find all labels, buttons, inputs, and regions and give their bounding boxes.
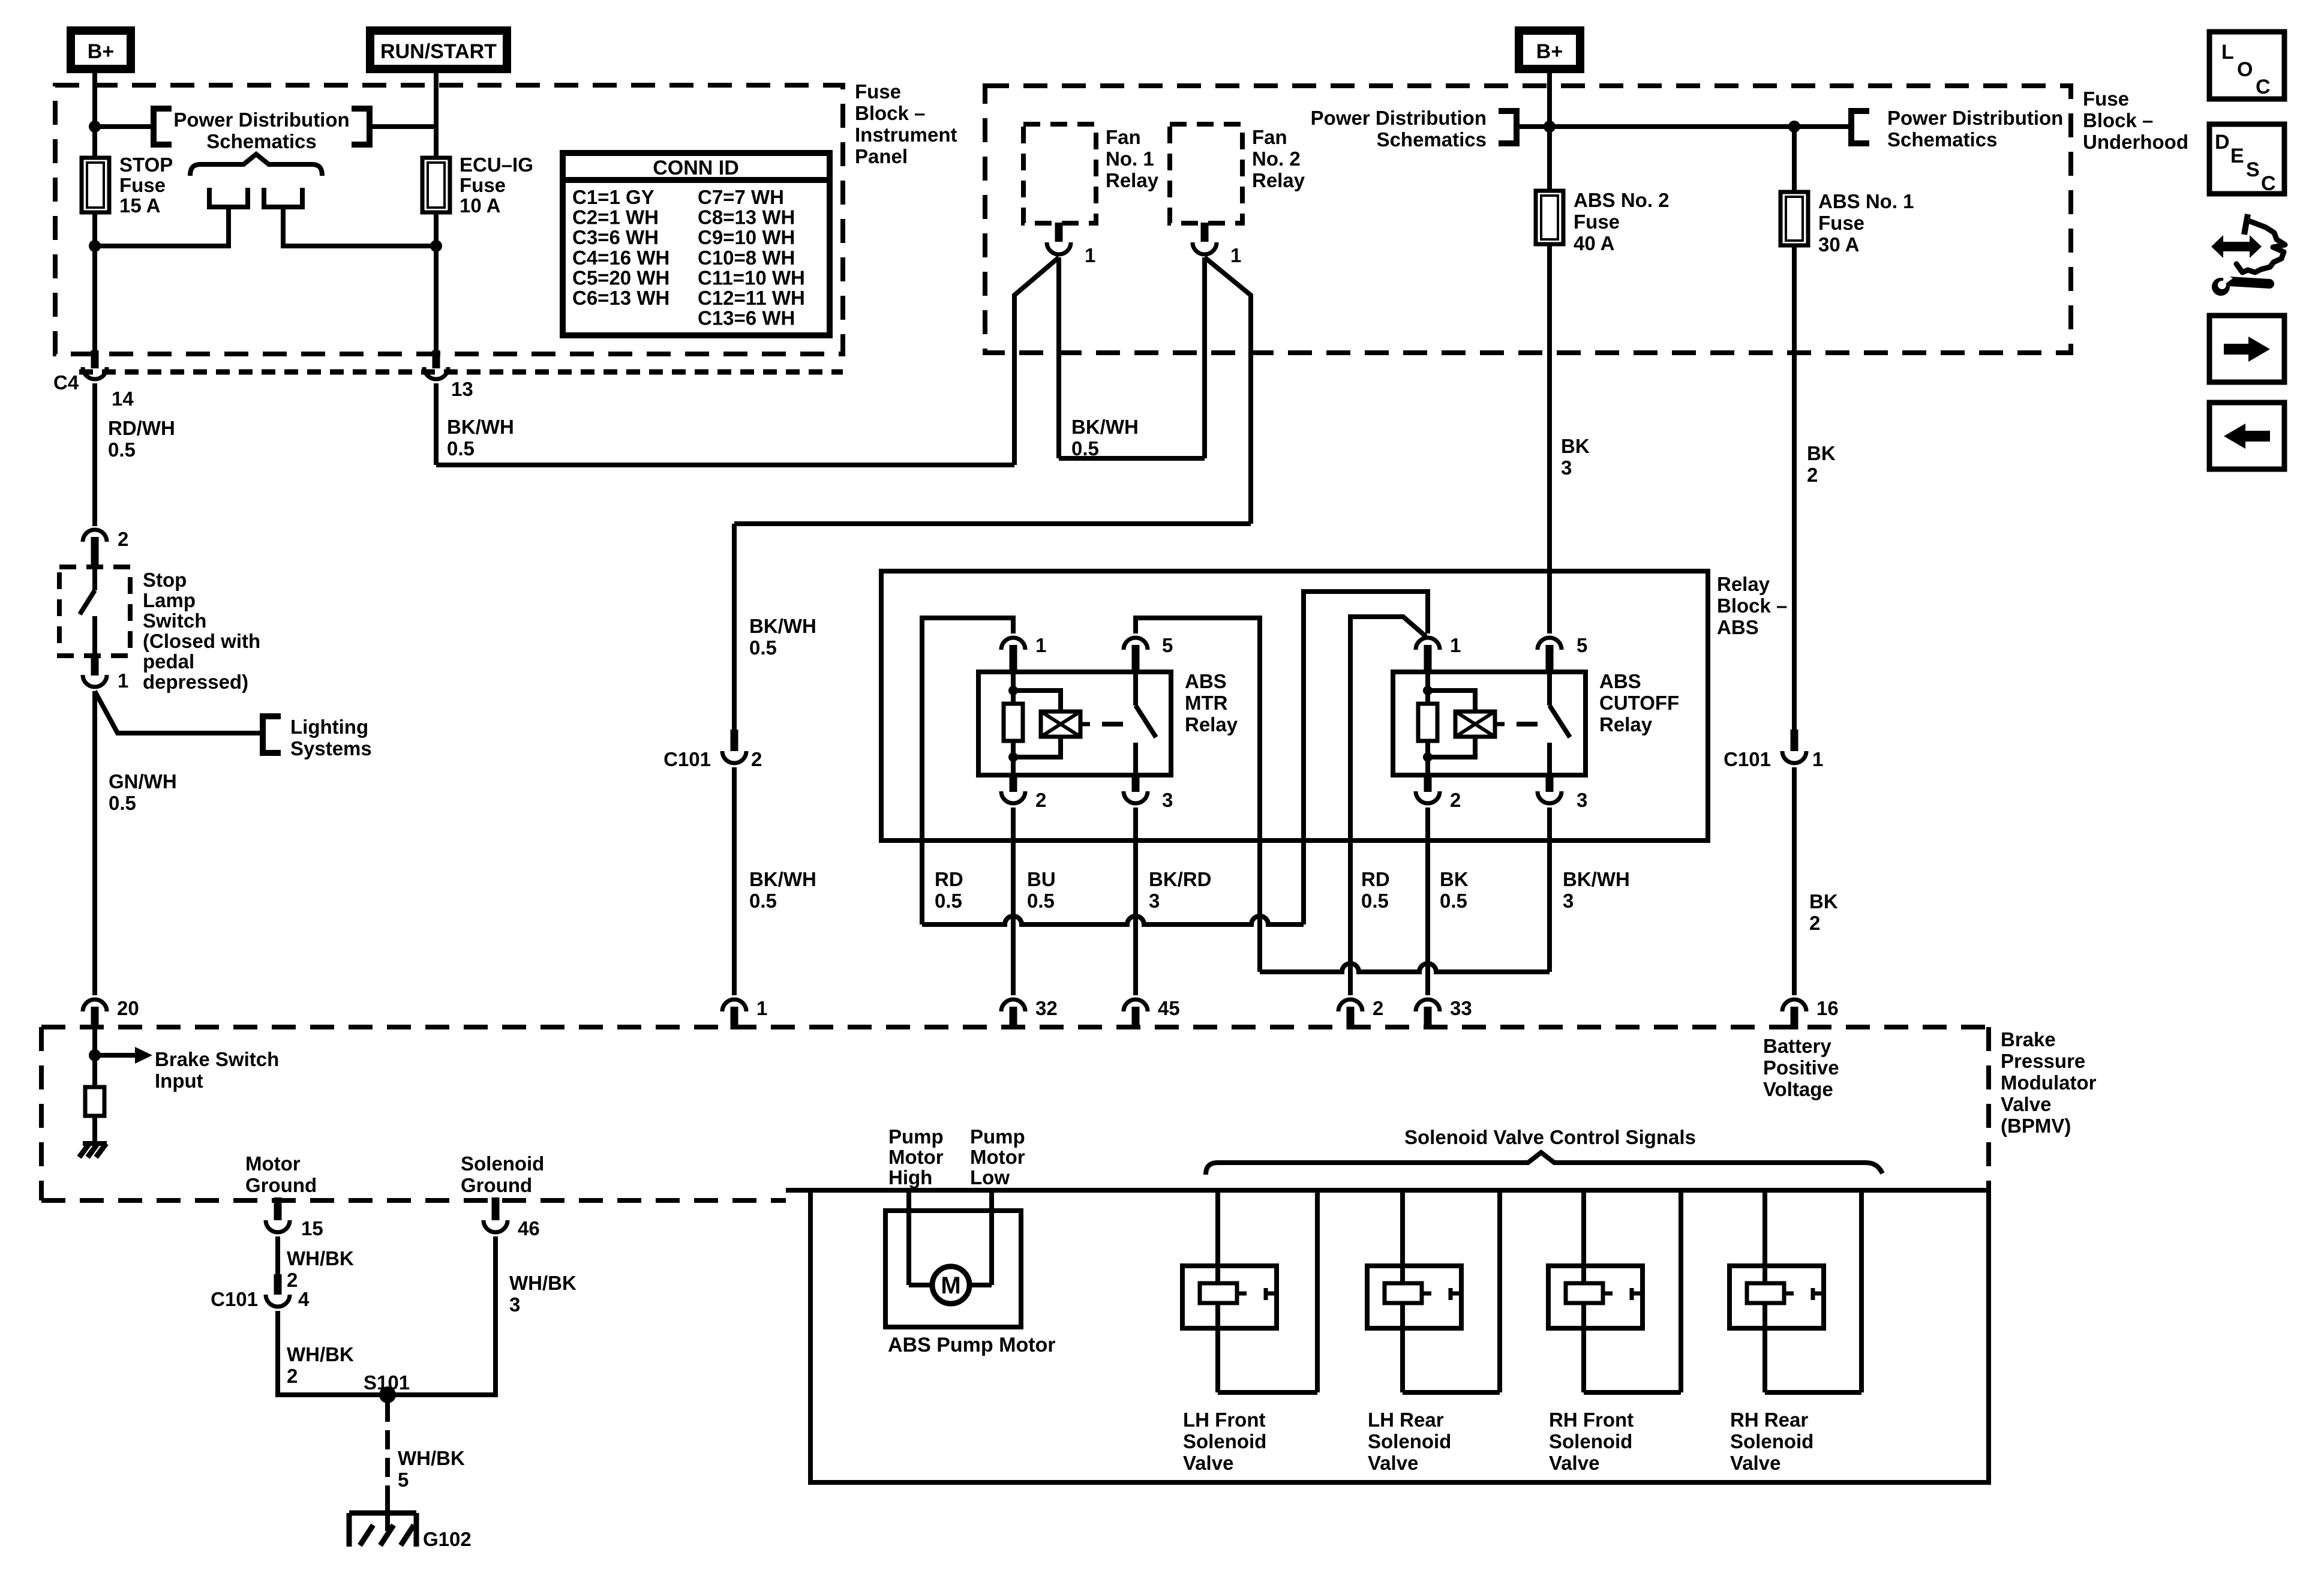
icon wrench xyxy=(2229,281,2269,284)
svg-text:ABS: ABS xyxy=(1599,670,1641,692)
fuse ECU-IG 10 A xyxy=(422,158,450,212)
svg-text:3: 3 xyxy=(1563,890,1574,912)
callout bracket right (Power Distribution) xyxy=(352,109,370,145)
svg-text:Lamp: Lamp xyxy=(143,589,196,611)
svg-text:Battery: Battery xyxy=(1763,1035,1831,1057)
svg-text:Block –: Block – xyxy=(855,102,925,124)
wire ABS No.1 fuse down xyxy=(1792,245,1797,730)
svg-text:ABS Pump Motor: ABS Pump Motor xyxy=(888,1334,1056,1356)
connector pin 1 fan relay 2 xyxy=(1201,223,1209,242)
svg-text:32: 32 xyxy=(1035,997,1058,1019)
switch blade stop lamp xyxy=(92,566,97,590)
svg-text:C3=6 WH: C3=6 WH xyxy=(572,226,659,248)
connector BPMV pin 15 xyxy=(274,1197,282,1220)
svg-text:13: 13 xyxy=(451,378,473,400)
connector pin 1 stop lamp switch xyxy=(91,654,99,676)
svg-text:No. 2: No. 2 xyxy=(1252,148,1301,170)
node splice S101 xyxy=(379,1386,396,1403)
svg-text:3: 3 xyxy=(509,1293,520,1316)
svg-text:C101: C101 xyxy=(663,748,711,770)
svg-text:Power Distribution: Power Distribution xyxy=(173,109,349,131)
svg-text:15: 15 xyxy=(301,1217,323,1239)
svg-text:Fan: Fan xyxy=(1106,126,1141,148)
svg-text:C4=16 WH: C4=16 WH xyxy=(572,247,669,269)
svg-text:C: C xyxy=(2256,76,2271,98)
dashed box Stop Lamp Switch xyxy=(59,567,130,656)
brace under Power Distribution Schematics xyxy=(190,154,322,176)
svg-text:Relay: Relay xyxy=(1106,169,1159,191)
svg-text:2: 2 xyxy=(751,748,762,770)
connector pin 3 ABS CUTOFF relay xyxy=(1546,774,1554,792)
svg-text:C7=7 WH: C7=7 WH xyxy=(698,186,784,208)
svg-text:Brake Switch: Brake Switch xyxy=(155,1048,279,1070)
svg-text:Block –: Block – xyxy=(1717,595,1787,617)
svg-text:0.5: 0.5 xyxy=(109,792,136,814)
svg-text:Fan: Fan xyxy=(1252,126,1287,148)
wire RH Rear solenoid valve loop xyxy=(1762,1190,1767,1392)
svg-text:Fuse: Fuse xyxy=(119,174,166,196)
wire CUTOFF pin2 to BPMV pin 33 xyxy=(1425,807,1430,995)
wire MTR pin2 to BPMV pin 32 xyxy=(1011,807,1016,995)
svg-text:Brake: Brake xyxy=(2001,1028,2056,1050)
svg-text:(Closed with: (Closed with xyxy=(143,630,260,652)
wire fan2 straight down xyxy=(1202,257,1207,458)
svg-text:RH Rear: RH Rear xyxy=(1730,1409,1808,1431)
connector pin 5 ABS MTR relay xyxy=(1124,638,1148,650)
svg-text:ABS No. 1: ABS No. 1 xyxy=(1818,190,1914,212)
svg-text:Relay: Relay xyxy=(1599,713,1653,736)
node CUTOFF coil top xyxy=(1423,686,1433,695)
svg-text:Pump: Pump xyxy=(888,1125,944,1148)
svg-text:Voltage: Voltage xyxy=(1763,1078,1833,1100)
svg-text:1: 1 xyxy=(1085,244,1095,266)
resistor in ABS MTR relay xyxy=(1004,704,1023,741)
wire B+ to STOP fuse xyxy=(92,73,97,158)
solenoid valve RH Front xyxy=(1548,1266,1643,1328)
svg-text:40 A: 40 A xyxy=(1574,232,1614,254)
svg-text:C12=11 WH: C12=11 WH xyxy=(698,287,805,309)
svg-text:3: 3 xyxy=(1149,890,1160,912)
svg-text:C13=6 WH: C13=6 WH xyxy=(698,307,795,329)
svg-text:C9=10 WH: C9=10 WH xyxy=(698,226,795,248)
node junction below ECU-IG fuse xyxy=(430,240,442,252)
svg-text:Solenoid: Solenoid xyxy=(1730,1430,1813,1452)
dashed box Fuse Block - Instrument Panel xyxy=(55,85,843,354)
svg-text:1: 1 xyxy=(1450,634,1461,656)
connector BPMV pin 1 xyxy=(722,999,746,1011)
connector half-box right under brace xyxy=(264,188,302,207)
wire STOP fuse to pin 14 xyxy=(92,212,97,352)
wire MTR coil branch xyxy=(1011,673,1016,704)
svg-text:45: 45 xyxy=(1158,997,1180,1019)
wire pin 1 down (GN/WH) xyxy=(92,691,97,995)
svg-text:RD: RD xyxy=(935,868,963,890)
svg-text:Low: Low xyxy=(970,1166,1010,1188)
svg-text:Block –: Block – xyxy=(2083,109,2153,131)
svg-text:2: 2 xyxy=(1035,789,1046,811)
svg-text:BK/WH: BK/WH xyxy=(1563,868,1630,890)
wire pin 46 to S101 xyxy=(388,1236,496,1395)
svg-text:WH/BK: WH/BK xyxy=(398,1447,465,1469)
wire from right half-box to ECU-IG wire xyxy=(283,207,436,246)
switch ABS MTR relay xyxy=(1133,673,1138,706)
svg-text:ABS: ABS xyxy=(1185,670,1227,692)
svg-text:Pressure: Pressure xyxy=(2001,1050,2085,1072)
svg-text:MTR: MTR xyxy=(1185,692,1228,714)
svg-text:BK/WH: BK/WH xyxy=(447,416,514,438)
svg-text:Pump: Pump xyxy=(970,1125,1025,1148)
svg-text:Solenoid: Solenoid xyxy=(461,1152,544,1175)
connector BPMV pin 33 xyxy=(1416,999,1440,1011)
power terminal RUN/START xyxy=(370,31,507,69)
wire C101 pin4 to S101 xyxy=(278,1311,388,1395)
wire ABS No.2 fuse to cutoff relay pin 5 xyxy=(1547,244,1552,634)
svg-text:3: 3 xyxy=(1162,789,1173,811)
svg-text:0.5: 0.5 xyxy=(1027,890,1055,912)
wire CUTOFF coil branch xyxy=(1425,673,1430,704)
svg-text:Motor: Motor xyxy=(888,1146,944,1168)
svg-text:L: L xyxy=(2221,41,2234,64)
connector BPMV pin 20 xyxy=(83,999,107,1011)
solenoid valve RH Rear xyxy=(1730,1266,1824,1328)
svg-text:C10=8 WH: C10=8 WH xyxy=(698,247,795,269)
box ABS MTR relay xyxy=(978,672,1171,775)
wire B+ underhood down xyxy=(1547,73,1552,191)
svg-text:WH/BK: WH/BK xyxy=(509,1272,577,1294)
table CONN ID divider xyxy=(563,177,830,183)
svg-text:B+: B+ xyxy=(1536,40,1563,63)
svg-text:S: S xyxy=(2246,158,2260,181)
connector C101 pin 1 xyxy=(1791,730,1798,751)
svg-text:BK/WH: BK/WH xyxy=(749,615,816,637)
svg-text:0.5: 0.5 xyxy=(1440,890,1467,912)
svg-text:E: E xyxy=(2230,145,2244,167)
power terminal B+ (instrument panel) xyxy=(71,31,131,69)
svg-text:1: 1 xyxy=(1035,634,1046,656)
box Relay Block - ABS xyxy=(881,571,1708,840)
svg-text:Valve: Valve xyxy=(2001,1093,2051,1115)
svg-text:0.5: 0.5 xyxy=(749,637,777,659)
node junction below STOP fuse xyxy=(89,240,101,252)
connector BPMV pin 46 xyxy=(492,1197,500,1220)
svg-text:LH Front: LH Front xyxy=(1183,1409,1265,1431)
brace solenoid valve control signals xyxy=(1206,1152,1882,1175)
resistor in ABS CUTOFF relay xyxy=(1418,704,1437,741)
svg-text:16: 16 xyxy=(1816,997,1839,1019)
box BPMV solid body xyxy=(786,1190,1989,1482)
svg-text:0.5: 0.5 xyxy=(108,439,136,461)
icon box arrow left xyxy=(2209,403,2284,469)
svg-text:C11=10 WH: C11=10 WH xyxy=(698,266,805,289)
svg-text:Fuse: Fuse xyxy=(1574,211,1620,233)
connector BPMV pin 32 xyxy=(1001,999,1025,1011)
wire junction to left callout bracket xyxy=(95,124,154,129)
wire RD elbow from MTR pin 1 xyxy=(922,618,1013,924)
svg-text:Solenoid: Solenoid xyxy=(1183,1430,1266,1452)
svg-text:Systems: Systems xyxy=(290,737,372,760)
svg-text:C5=20 WH: C5=20 WH xyxy=(572,266,669,289)
dashed box Fuse Block - Underhood xyxy=(985,86,2071,353)
svg-text:C6=13 WH: C6=13 WH xyxy=(572,287,669,309)
wire C101 pin2 to BPMV pin 1 xyxy=(732,767,737,995)
svg-text:RUN/START: RUN/START xyxy=(380,40,497,63)
svg-text:20: 20 xyxy=(117,997,139,1019)
fuse STOP 15 A xyxy=(82,158,109,212)
svg-text:2: 2 xyxy=(287,1365,298,1387)
svg-text:Schematics: Schematics xyxy=(1377,128,1487,151)
wire horizontal to C101 branch xyxy=(734,521,1251,526)
wire resistor to chassis ground xyxy=(92,1116,97,1143)
svg-text:BK: BK xyxy=(1561,435,1590,457)
node MTR coil top xyxy=(1008,686,1018,695)
svg-text:No. 1: No. 1 xyxy=(1106,148,1154,170)
svg-text:G102: G102 xyxy=(423,1528,472,1550)
svg-text:ABS: ABS xyxy=(1717,616,1759,638)
svg-text:RH Front: RH Front xyxy=(1549,1409,1634,1431)
wire fan2 diagonal down xyxy=(1205,257,1251,524)
wire ECU-IG fuse to pin 13 xyxy=(434,212,439,352)
wire cutoff pin1 diagonal branch xyxy=(1350,617,1426,995)
svg-text:Instrument: Instrument xyxy=(855,124,957,146)
svg-text:10 A: 10 A xyxy=(460,194,500,217)
connector BPMV pin 16 xyxy=(1782,999,1806,1011)
svg-text:ABS No. 2: ABS No. 2 xyxy=(1574,189,1670,211)
svg-text:2: 2 xyxy=(1807,464,1818,486)
svg-text:Fuse: Fuse xyxy=(855,80,901,103)
wire RUN/START to ECU-IG fuse xyxy=(434,73,439,158)
svg-text:Fuse: Fuse xyxy=(1818,212,1864,234)
svg-text:Solenoid Valve Control Signals: Solenoid Valve Control Signals xyxy=(1404,1126,1696,1148)
svg-text:Modulator: Modulator xyxy=(2001,1071,2097,1094)
ground chassis (brake switch) xyxy=(83,1141,107,1146)
svg-text:BK/RD: BK/RD xyxy=(1149,868,1212,890)
svg-text:pedal: pedal xyxy=(143,650,194,673)
ground G102 xyxy=(349,1511,416,1516)
wire pump motor low xyxy=(989,1190,994,1285)
connector BPMV pin 45 xyxy=(1124,999,1148,1011)
svg-text:WH/BK: WH/BK xyxy=(287,1343,354,1365)
icon box LOC xyxy=(2209,32,2284,99)
svg-text:B+: B+ xyxy=(88,40,114,63)
svg-text:Schematics: Schematics xyxy=(1887,128,1997,151)
svg-text:BK: BK xyxy=(1440,868,1469,890)
wire branch to Lighting Systems xyxy=(95,691,263,733)
wire fan U bottom xyxy=(1059,456,1205,461)
wire pin 15 to C101 pin 4 xyxy=(275,1236,280,1274)
solenoid valve LH Rear xyxy=(1367,1266,1461,1328)
svg-text:C101: C101 xyxy=(1724,748,1771,770)
power terminal B+ (underhood) xyxy=(1519,31,1580,69)
node brake switch input xyxy=(89,1049,101,1061)
svg-text:C101: C101 xyxy=(211,1288,258,1310)
svg-text:1: 1 xyxy=(1812,748,1823,770)
wire junction to ABS No.1 branch xyxy=(1517,124,1851,129)
svg-text:2: 2 xyxy=(1809,912,1820,934)
svg-text:depressed): depressed) xyxy=(143,671,248,693)
wire BK/WH horizontal run with hops xyxy=(1260,963,1550,972)
callout bracket Lighting Systems xyxy=(263,716,281,753)
svg-text:1: 1 xyxy=(1230,244,1241,266)
svg-text:RD: RD xyxy=(1361,868,1390,890)
resistor brake switch input xyxy=(85,1087,104,1116)
svg-text:Input: Input xyxy=(155,1070,203,1092)
svg-text:5: 5 xyxy=(1162,634,1173,656)
table CONN ID box xyxy=(563,153,830,335)
svg-text:4: 4 xyxy=(298,1288,310,1310)
wire pin 14 down (RD/WH) xyxy=(92,383,97,526)
svg-text:Solenoid: Solenoid xyxy=(1549,1430,1632,1452)
connector pin 2 stop lamp switch xyxy=(83,530,107,542)
svg-text:Valve: Valve xyxy=(1183,1452,1233,1474)
svg-text:Switch: Switch xyxy=(143,610,206,632)
wire bracket to RUN/START wire xyxy=(370,124,436,129)
callout bracket (Power Distribution right B+) xyxy=(1499,111,1517,143)
wire pin 13 down (BK/WH) xyxy=(434,383,439,465)
svg-text:Fuse: Fuse xyxy=(460,174,506,196)
svg-text:2: 2 xyxy=(1373,997,1383,1019)
svg-text:Valve: Valve xyxy=(1368,1452,1418,1474)
wire MTR pin3 to BPMV pin 45 xyxy=(1133,807,1138,995)
svg-text:5: 5 xyxy=(398,1469,409,1491)
box ABS CUTOFF relay xyxy=(1393,672,1586,775)
wire from left half-box to STOP fuse wire xyxy=(95,207,229,246)
svg-text:0.5: 0.5 xyxy=(749,890,777,912)
connector pin 14 xyxy=(91,350,99,368)
wire ECU-IG horizontal run xyxy=(436,463,1014,467)
connector C101 pin 4 xyxy=(274,1274,282,1295)
wire CUTOFF pin3 down xyxy=(1547,807,1552,972)
svg-text:WH/BK: WH/BK xyxy=(287,1247,354,1269)
connector pin 2 ABS CUTOFF relay xyxy=(1424,774,1432,792)
svg-text:CUTOFF: CUTOFF xyxy=(1599,692,1679,714)
node CUTOFF coil bottom xyxy=(1423,752,1433,762)
svg-text:LH Rear: LH Rear xyxy=(1368,1409,1444,1431)
svg-text:Power Distribution: Power Distribution xyxy=(1311,107,1487,129)
connector line C4 (dotted) xyxy=(79,370,843,375)
connector half-box left under brace xyxy=(209,188,248,207)
wire pin 20 into BPMV xyxy=(92,1029,97,1087)
connector BPMV pin 2 xyxy=(1338,999,1362,1011)
svg-text:Underhood: Underhood xyxy=(2083,131,2188,153)
connector pin 3 ABS MTR relay xyxy=(1132,774,1140,792)
node junction on B+ wire xyxy=(89,121,101,133)
dashed box BPMV outline xyxy=(41,1025,1989,1029)
connector pin 1 fan relay 1 xyxy=(1055,223,1063,242)
svg-text:C4: C4 xyxy=(53,371,79,394)
fuse ABS No. 2 40 A xyxy=(1547,191,1552,244)
svg-text:Relay: Relay xyxy=(1717,573,1770,595)
connector pin 13 xyxy=(433,350,440,368)
coil ABS CUTOFF relay xyxy=(1455,712,1495,737)
svg-text:C: C xyxy=(2261,172,2276,195)
svg-text:BU: BU xyxy=(1027,868,1056,890)
svg-text:46: 46 xyxy=(518,1217,540,1239)
svg-text:High: High xyxy=(888,1166,932,1188)
wire LH Rear solenoid valve loop xyxy=(1400,1190,1405,1392)
svg-text:33: 33 xyxy=(1450,997,1472,1019)
wire RD run to cutoff pin 1 xyxy=(1304,592,1428,924)
svg-text:2: 2 xyxy=(118,528,128,550)
connector pin 1 ABS CUTOFF relay xyxy=(1416,638,1440,650)
node junction on underhood B+ wire xyxy=(1544,121,1556,133)
svg-text:Motor: Motor xyxy=(970,1146,1025,1168)
svg-text:M: M xyxy=(941,1272,960,1299)
icon box arrow right xyxy=(2209,316,2284,382)
svg-text:RD/WH: RD/WH xyxy=(108,417,175,439)
connector pin 2 ABS MTR relay xyxy=(1010,774,1017,792)
wire S101 to ground (broken) xyxy=(385,1395,390,1422)
svg-text:Fuse: Fuse xyxy=(2083,88,2129,110)
wire RH Front solenoid valve loop xyxy=(1581,1190,1586,1392)
dashed box Fan No. 1 Relay xyxy=(1023,124,1096,223)
icon box DESC xyxy=(2209,124,2284,194)
svg-text:5: 5 xyxy=(1577,634,1587,656)
node MTR coil bottom xyxy=(1008,752,1018,762)
svg-text:Relay: Relay xyxy=(1185,713,1238,736)
svg-text:Positive: Positive xyxy=(1763,1056,1839,1079)
svg-text:STOP: STOP xyxy=(119,154,173,176)
connector C101 pin 2 xyxy=(731,730,738,751)
svg-text:Stop: Stop xyxy=(143,569,187,591)
switch ABS CUTOFF relay xyxy=(1547,673,1552,706)
svg-text:BK/WH: BK/WH xyxy=(1071,416,1139,438)
svg-text:0.5: 0.5 xyxy=(447,437,475,460)
arrow brake switch input xyxy=(95,1053,135,1058)
wire RD horizontal run with hops xyxy=(922,916,1304,924)
svg-text:2: 2 xyxy=(1450,789,1461,811)
motor M circle xyxy=(909,1283,933,1287)
wire LH Front solenoid valve loop xyxy=(1215,1190,1220,1392)
svg-text:C8=13 WH: C8=13 WH xyxy=(698,206,795,229)
callout bracket (Power Distribution underhood) xyxy=(1851,111,1869,143)
svg-text:0.5: 0.5 xyxy=(935,890,962,912)
svg-text:O: O xyxy=(2237,58,2253,81)
node junction ABS No.1 wire xyxy=(1788,121,1800,133)
svg-text:Ground: Ground xyxy=(245,1174,317,1196)
svg-text:15 A: 15 A xyxy=(119,194,160,217)
wire elbow MTR pin 5 to crossover xyxy=(1136,618,1260,972)
svg-text:3: 3 xyxy=(1577,789,1587,811)
wire fan1 straight down xyxy=(1056,257,1061,458)
connector pin 1 ABS MTR relay xyxy=(1001,638,1025,650)
svg-text:Valve: Valve xyxy=(1730,1452,1780,1474)
coil arm and link dash MTR xyxy=(1080,722,1090,727)
solenoid valve LH Front xyxy=(1182,1266,1277,1328)
svg-text:Ground: Ground xyxy=(461,1174,532,1196)
svg-text:GN/WH: GN/WH xyxy=(109,770,177,792)
svg-text:BK: BK xyxy=(1809,890,1838,912)
fuse ABS No. 1 30 A xyxy=(1792,127,1797,192)
svg-text:1: 1 xyxy=(118,670,128,692)
svg-text:CONN ID: CONN ID xyxy=(653,157,739,179)
svg-text:Power Distribution: Power Distribution xyxy=(1887,107,2063,129)
svg-text:(BPMV): (BPMV) xyxy=(2001,1115,2071,1137)
wire pump motor high xyxy=(906,1190,911,1285)
dashed box Fan No. 2 Relay xyxy=(1170,124,1242,223)
svg-text:Panel: Panel xyxy=(855,145,908,167)
svg-text:0.5: 0.5 xyxy=(1361,890,1389,912)
connector pin 5 ABS CUTOFF relay xyxy=(1538,638,1562,650)
icon car outline xyxy=(2244,214,2248,235)
svg-text:D: D xyxy=(2215,131,2230,154)
svg-text:Relay: Relay xyxy=(1252,169,1305,191)
svg-text:14: 14 xyxy=(112,388,134,410)
svg-text:Lighting: Lighting xyxy=(290,716,368,738)
svg-text:Schematics: Schematics xyxy=(206,130,316,152)
svg-text:BK: BK xyxy=(1807,442,1836,464)
wire down to C101 pin 2 xyxy=(732,524,737,730)
svg-text:1: 1 xyxy=(756,997,767,1019)
